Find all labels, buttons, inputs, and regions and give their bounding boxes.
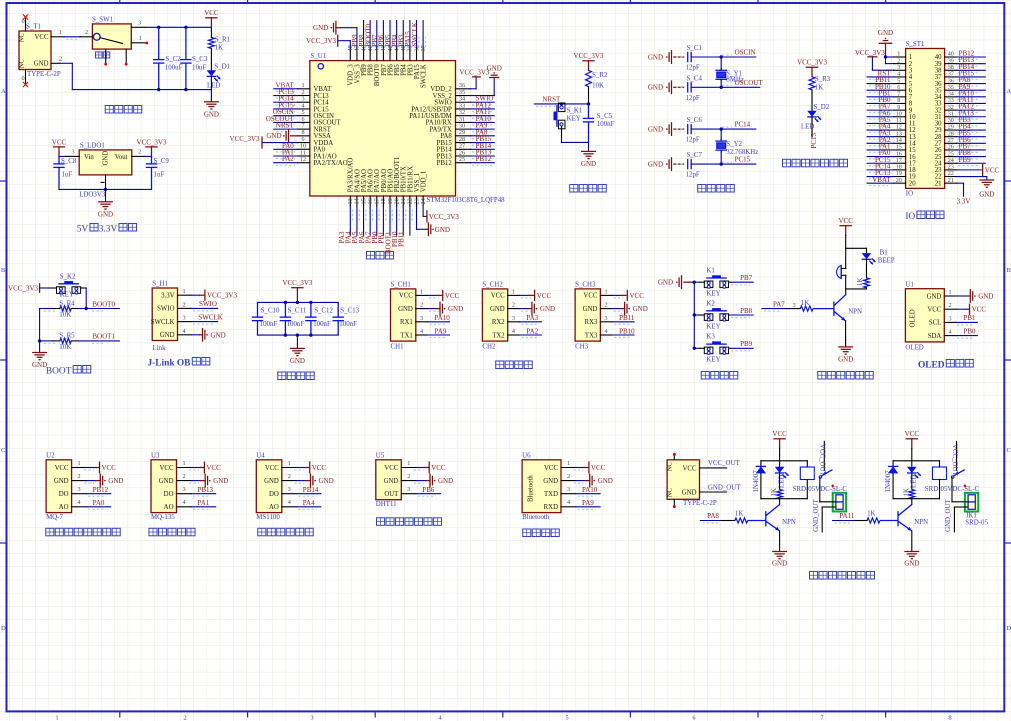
S_ST1 pin 34 — [945, 96, 957, 98]
svg-text:MQ-7: MQ-7 — [46, 514, 63, 521]
svg-text:DO: DO — [59, 491, 69, 498]
wire net BOOT0 — [79, 308, 120, 310]
svg-text:SWCLK: SWCLK — [411, 22, 419, 47]
wire net PB8 — [730, 314, 754, 316]
wire net PA3 — [349, 206, 351, 235]
svg-text:2: 2 — [420, 302, 423, 309]
wire net PB12 — [86, 493, 110, 495]
svg-text:S_C7: S_C7 — [687, 152, 703, 159]
S_ST1 pin 40 — [945, 56, 957, 58]
svg-text:VCC: VCC — [265, 465, 279, 472]
terminal wires JK1 — [952, 501, 968, 503]
svg-text:VCC_3V3: VCC_3V3 — [574, 52, 604, 60]
svg-text:Link: Link — [153, 345, 167, 352]
svg-text:GND: GND — [648, 84, 663, 92]
svg-text:GND: GND — [878, 29, 893, 37]
title U2 — [46, 528, 54, 536]
ground GND filter — [296, 335, 298, 348]
S_U1 pin 9 VDDA — [298, 142, 310, 144]
wire net PB13 right — [957, 63, 986, 65]
svg-text:PB11: PB11 — [398, 231, 406, 247]
svg-text:GND: GND — [103, 151, 110, 166]
svg-text:4: 4 — [948, 329, 951, 336]
svg-text:1K: 1K — [801, 300, 809, 307]
module S_CH2 body — [482, 289, 507, 341]
relay bottom rail None — [761, 498, 807, 500]
wire net PB13 — [191, 493, 215, 495]
wire net PC15 — [274, 108, 298, 110]
title 电源电路 — [105, 105, 113, 113]
svg-text:GND: GND — [581, 160, 596, 168]
svg-text:NC: NC — [19, 59, 26, 69]
S_U1 pin 12 PA2/TX/AO — [298, 162, 310, 164]
wire net PA0 left — [867, 156, 893, 158]
wire key bottom to C5 bottom — [561, 136, 563, 143]
ground GND U2 — [86, 480, 95, 482]
relay NC contact JK1 — [964, 485, 967, 488]
capacitor S_C3 — [185, 27, 187, 59]
svg-text:GND: GND — [487, 64, 502, 72]
wire net PB0 — [956, 335, 977, 337]
svg-text:GND: GND — [682, 489, 697, 496]
S_ST1 pin 4 — [894, 76, 906, 78]
U1 pin 3 SCL — [944, 321, 956, 323]
svg-text:NC: NC — [667, 488, 674, 498]
svg-text:2: 2 — [182, 301, 185, 308]
svg-text:S_R1: S_R1 — [215, 36, 231, 43]
svg-text:5: 5 — [565, 715, 568, 721]
svg-text:2: 2 — [182, 473, 185, 480]
resistor S_R2 — [586, 70, 592, 86]
svg-text:PA11: PA11 — [839, 512, 855, 520]
svg-text:VCC_3V3: VCC_3V3 — [207, 292, 237, 300]
S_U1 pin 1 VBAT — [298, 88, 310, 90]
svg-text:TX1: TX1 — [400, 332, 412, 339]
green terminal JK1 — [965, 493, 978, 512]
svg-text:S_SW1: S_SW1 — [92, 16, 114, 23]
svg-text:S_R3: S_R3 — [815, 76, 831, 83]
title 晶振电路 — [698, 184, 706, 192]
svg-text:GND: GND — [978, 293, 993, 301]
resistor 1K relay JK1 — [909, 490, 915, 499]
svg-text:GND: GND — [448, 305, 463, 313]
S_ST1 pin 15 — [894, 149, 906, 151]
svg-text:VCC: VCC — [160, 465, 174, 472]
S_U1 pin 4 PC15 — [298, 108, 310, 110]
svg-text:2: 2 — [605, 302, 608, 309]
svg-text:GND: GND — [658, 279, 673, 287]
S_U1 pin 35 VSS_2 — [456, 95, 471, 97]
svg-text:VDD_1: VDD_1 — [421, 171, 428, 193]
S_U1 pin 18 PB0/AO — [382, 196, 384, 206]
svg-text:1: 1 — [948, 289, 951, 296]
wire net PB9 — [363, 21, 365, 48]
svg-text:PB11: PB11 — [619, 314, 635, 322]
relay top rail None — [761, 460, 807, 462]
wire net PB14 — [297, 493, 321, 495]
S_CH1 pin 4 TX1 — [416, 334, 428, 336]
svg-text:TXD: TXD — [544, 491, 558, 498]
power port VCC_3V3 at S_U1 VDD_2 — [471, 88, 477, 90]
S_SW1 pivot circle — [93, 33, 100, 40]
svg-text:4: 4 — [288, 499, 291, 506]
power port VCC_3V3 at S_U1 VDD_1 — [422, 206, 424, 217]
U2 pin 3 DO — [72, 493, 87, 495]
wire net PB7 right — [957, 149, 986, 151]
svg-text:VBAT: VBAT — [872, 176, 891, 184]
svg-text:K2: K2 — [706, 300, 715, 307]
svg-text:Vin: Vin — [84, 154, 94, 161]
svg-text:VCC_3V3: VCC_3V3 — [137, 138, 167, 146]
S_U1 pin 15 PA5/AO — [363, 196, 365, 206]
S_ST1 pin 17 — [894, 162, 906, 164]
wire net PB8 right — [957, 156, 986, 158]
module U1 body — [905, 289, 944, 342]
svg-text:4: 4 — [605, 328, 608, 335]
wire T1.VCC to SW1 — [64, 36, 80, 38]
svg-text:1: 1 — [512, 288, 515, 295]
S_U1 pin 24 VDD_1 — [422, 196, 424, 206]
S_U1 pin 11 PA1/AO — [298, 155, 310, 157]
svg-text:4: 4 — [182, 499, 185, 506]
svg-text:Vout: Vout — [115, 154, 128, 161]
svg-text:1: 1 — [182, 460, 185, 467]
module S_CH1 body — [391, 289, 416, 341]
svg-text:LDO3V3: LDO3V3 — [79, 191, 106, 198]
svg-text:8MHz: 8MHz — [726, 77, 744, 84]
svg-text:3: 3 — [78, 486, 81, 493]
title U6 — [523, 529, 531, 537]
relay switch contact None — [814, 472, 819, 474]
svg-text:PA2: PA2 — [282, 155, 294, 163]
terminal wires None — [820, 501, 836, 503]
svg-text:GND: GND — [633, 305, 648, 313]
svg-text:RX2: RX2 — [492, 319, 505, 326]
svg-text:VCC: VCC — [985, 166, 1000, 174]
svg-text:100nF: 100nF — [260, 321, 278, 328]
svg-text:S_R2: S_R2 — [592, 72, 608, 79]
svg-text:S_C11: S_C11 — [288, 307, 307, 314]
wire net PA10 — [471, 121, 495, 123]
wire NRST — [534, 103, 588, 105]
T2 bottom stub — [673, 499, 675, 505]
ground GND oled — [956, 295, 968, 297]
U6 pin 3 TXD — [561, 493, 576, 495]
svg-text:1K: 1K — [735, 510, 743, 517]
wire net PB10 left — [867, 89, 893, 91]
power port VCC relay JK1 — [911, 439, 913, 449]
S_ST1 pin 21 — [945, 182, 957, 184]
svg-text:VCC: VCC — [206, 464, 221, 472]
wire net PA0 — [86, 506, 110, 508]
S_CH1 pin 3 RX1 — [416, 321, 428, 323]
S_ST1 pin 3 — [894, 69, 906, 71]
svg-text:VCC: VCC — [491, 293, 505, 300]
svg-text:U6: U6 — [522, 452, 531, 459]
svg-text:K3: K3 — [706, 334, 715, 341]
svg-text:KEY: KEY — [706, 323, 720, 330]
wire net SWCLK — [422, 21, 424, 48]
svg-text:VCC: VCC — [772, 430, 787, 438]
wire net PA8 right — [957, 83, 986, 85]
wire net PA6 left — [867, 116, 893, 118]
wire net PA1 — [274, 155, 298, 157]
svg-text:25: 25 — [459, 156, 465, 163]
svg-text:PA3: PA3 — [526, 314, 538, 322]
svg-text:2: 2 — [85, 29, 88, 36]
svg-text:S_K2: S_K2 — [60, 274, 76, 281]
U2 pin 1 VCC — [72, 467, 87, 469]
svg-text:IO: IO — [906, 191, 913, 198]
S_U1 pin 32 PA11/USB/DM — [456, 115, 471, 117]
power port VCC_3V3 at S_U1 VDDA — [262, 142, 298, 144]
wire net PA15 — [416, 21, 418, 48]
S_CH3 pin 4 TX3 — [600, 334, 612, 336]
power port VCC at LDO input — [58, 147, 60, 157]
U4 pin 4 AO — [282, 506, 297, 508]
svg-text:S_C1: S_C1 — [687, 45, 703, 52]
svg-text:PA1: PA1 — [198, 499, 210, 507]
S_U1 pin 47 VSS_3 — [356, 48, 358, 61]
wire net PA5 left — [867, 122, 893, 124]
key S_K1 vertical — [561, 104, 563, 106]
svg-text:3: 3 — [605, 315, 608, 322]
svg-text:VCC: VCC — [905, 430, 920, 438]
wire net PC13 — [274, 95, 298, 97]
svg-text:NC: NC — [19, 33, 26, 43]
S_U1 pin 30 PA9/TX — [456, 128, 471, 130]
svg-text:VCC_3V3: VCC_3V3 — [306, 37, 336, 45]
wire net PB15 — [471, 142, 495, 144]
S_T1 pin 1 VCC — [51, 36, 64, 38]
svg-text:VCC: VCC — [399, 293, 413, 300]
S_U1 pin 37 SWCLK — [422, 48, 424, 61]
svg-text:VCC_3V3: VCC_3V3 — [8, 285, 38, 293]
LED branch — [866, 248, 868, 252]
svg-text:VCC: VCC — [102, 464, 117, 472]
S_ST1 pin 2 — [894, 63, 906, 65]
ground GND jlink — [191, 334, 200, 336]
wire net PC13 left — [867, 176, 893, 178]
svg-text:GND: GND — [648, 53, 663, 61]
svg-text:100nF: 100nF — [339, 321, 357, 328]
transistor NPN relay JK1 — [897, 511, 899, 526]
svg-text:GND: GND — [290, 357, 305, 365]
svg-text:2: 2 — [288, 473, 291, 480]
U3 pin 3 DO — [177, 493, 192, 495]
S_U1 pin1 marker circle — [318, 64, 323, 69]
S_U1 pin 34 SWIO — [456, 101, 471, 103]
svg-text:24: 24 — [420, 198, 427, 204]
S_ST1 pin 24 — [945, 162, 957, 164]
svg-text:2: 2 — [567, 473, 570, 480]
svg-text:GND: GND — [648, 161, 663, 169]
svg-text:GND: GND — [264, 478, 279, 485]
svg-text:GND: GND — [648, 126, 663, 134]
switch S_SW1 body — [92, 24, 131, 49]
wire VCC_OUT drop JK1 — [956, 441, 958, 470]
S_ST1 pin 39 — [945, 63, 957, 65]
svg-text:3: 3 — [72, 148, 75, 155]
svg-text:S_CH3: S_CH3 — [575, 282, 596, 289]
wire net PB11 left — [867, 83, 893, 85]
U6 pin 4 RXD — [561, 506, 576, 508]
filter bottom rail — [258, 334, 339, 336]
S_U1 pin 16 PA6/AO — [369, 196, 371, 206]
svg-text:3.3V: 3.3V — [161, 293, 174, 300]
svg-text:SWCLK: SWCLK — [198, 313, 223, 321]
ground GND U4 — [297, 480, 306, 482]
power port VCC relay None — [779, 439, 781, 449]
wire net PA12 right — [957, 109, 986, 111]
wire net PB0 left — [867, 102, 893, 104]
wire net PA12 — [471, 108, 495, 110]
svg-text:STM32F103C8T6_LQFP48: STM32F103C8T6_LQFP48 — [427, 197, 506, 204]
S_U1 pin 8 VSSA — [298, 135, 310, 137]
svg-text:OLED: OLED — [918, 361, 945, 371]
svg-text:GND: GND — [838, 355, 853, 363]
svg-text:10K: 10K — [59, 312, 71, 319]
svg-text:PB8: PB8 — [740, 307, 753, 315]
U3 pin 1 VCC — [177, 467, 192, 469]
svg-text:3: 3 — [420, 315, 423, 322]
wire net PB14 — [471, 148, 495, 150]
power port VCC at header pin 23 — [957, 169, 982, 171]
crystal S_Y1 — [720, 55, 723, 58]
svg-text:D: D — [1, 625, 6, 632]
ground at S_U1 VSS_3 — [356, 28, 358, 48]
wire net PA8 — [471, 135, 495, 137]
svg-text:K1: K1 — [706, 268, 715, 275]
capacitor S_C5 — [588, 104, 590, 119]
svg-text:GND: GND — [32, 361, 47, 369]
svg-text:U2: U2 — [46, 452, 55, 459]
wire net PC14 — [274, 101, 298, 103]
svg-text:2: 2 — [512, 302, 515, 309]
svg-text:S_CH1: S_CH1 — [391, 282, 412, 289]
wire net PA3 left — [867, 136, 893, 138]
svg-text:GND: GND — [98, 210, 113, 218]
svg-text:21: 21 — [935, 180, 942, 187]
svg-text:PB9: PB9 — [740, 340, 753, 348]
svg-text:100nF: 100nF — [597, 121, 615, 128]
svg-text:2: 2 — [138, 148, 141, 155]
svg-text:KEY: KEY — [60, 291, 74, 298]
wire net PB9 — [730, 347, 754, 349]
wire net PB3 right — [957, 122, 986, 124]
svg-text:12pF: 12pF — [686, 137, 700, 144]
svg-text:VCC: VCC — [55, 465, 69, 472]
S_T1 top no-connect pin — [25, 18, 27, 31]
S_H1 pin 4 GND — [178, 334, 192, 336]
svg-text:3: 3 — [407, 486, 410, 493]
svg-text:BOOT: BOOT — [46, 367, 72, 377]
wire 1K to base — [813, 308, 834, 310]
title U4 — [258, 528, 266, 536]
svg-text:Bluetooth: Bluetooth — [522, 514, 550, 521]
S_SW1 lever — [100, 38, 122, 44]
S_U1 pin 10 PA0 — [298, 148, 310, 150]
wire net SWCLK — [191, 321, 218, 323]
S_CH2 pin 1 VCC — [508, 294, 520, 296]
svg-text:NPN: NPN — [782, 519, 796, 526]
wire net PB4 right — [957, 129, 986, 131]
svg-text:GND_OUT: GND_OUT — [945, 499, 952, 532]
svg-text:GND: GND — [313, 24, 328, 32]
wire to PC15 — [691, 163, 756, 165]
svg-text:CH2: CH2 — [482, 343, 496, 350]
ground GND S_CH2 — [519, 308, 528, 310]
svg-text:21: 21 — [948, 177, 954, 184]
base wire net PA7 — [762, 308, 787, 310]
S_ST1 pin 7 — [894, 96, 906, 98]
svg-text:GND: GND — [213, 477, 228, 485]
T2 top stub — [673, 456, 675, 460]
svg-text:2: 2 — [183, 715, 186, 721]
svg-text:S_LDO1: S_LDO1 — [80, 142, 105, 149]
svg-text:VCC_OUT: VCC_OUT — [708, 460, 741, 467]
wire net PB1 left — [867, 96, 893, 98]
wire net PB11 — [409, 206, 411, 235]
svg-text:MS1100: MS1100 — [256, 514, 280, 521]
module S_CH3 body — [575, 289, 600, 341]
svg-text:GND: GND — [398, 306, 413, 313]
resistor 1K relay None — [777, 490, 783, 499]
ground GND U5 — [416, 480, 425, 482]
relay switch contact JK1 — [947, 472, 952, 474]
wire net PA13 right — [957, 116, 986, 118]
wire net VCC_OUT — [700, 467, 727, 469]
svg-text:AO: AO — [269, 504, 279, 511]
svg-text:1K: 1K — [815, 84, 823, 91]
S_H1 pin 1 3.3V — [178, 294, 192, 296]
wire VCC_OUT drop None — [823, 441, 825, 470]
svg-text:SRD-05: SRD-05 — [965, 519, 988, 526]
resistor S_R4 — [40, 308, 53, 310]
title 声光报警电路 — [818, 371, 826, 379]
wire net PA7 left — [867, 109, 893, 111]
U3 pin 4 AO — [177, 506, 192, 508]
wire net OSCOUT — [274, 121, 298, 123]
svg-text:VCC: VCC — [445, 292, 460, 300]
S_ST1 pin 25 — [945, 156, 957, 158]
wire key to BOOT0 node — [85, 288, 87, 309]
S_SW1 pin 2 — [80, 36, 92, 38]
svg-text:TYPE-C-2P: TYPE-C-2P — [683, 500, 717, 507]
svg-text:GND: GND — [772, 560, 787, 568]
wire net PA11 — [471, 115, 495, 117]
wire net PB5 — [396, 21, 398, 48]
wire net PA9 right — [957, 89, 986, 91]
svg-text:S_R4: S_R4 — [59, 300, 75, 307]
filter top rail — [258, 301, 339, 303]
svg-text:3: 3 — [182, 315, 185, 322]
relay coil None — [800, 467, 814, 480]
S_U1 pin 26 PB13 — [456, 155, 471, 157]
U5 pin 3 OUT — [401, 493, 416, 495]
svg-text:1: 1 — [567, 460, 570, 467]
S_CH3 pin 1 VCC — [600, 294, 612, 296]
capacitor S_C6 — [676, 128, 683, 130]
wire net PB6 — [389, 21, 391, 48]
svg-text:3: 3 — [288, 486, 291, 493]
power port VCC alarm — [845, 226, 847, 236]
svg-text:1: 1 — [139, 35, 142, 42]
ground at S_U1 VSS_2 — [471, 95, 495, 97]
svg-text:SWCLK: SWCLK — [421, 64, 428, 88]
U5 pin 1 VCC — [401, 467, 416, 469]
wire SW1.3 to VCC rail — [146, 26, 212, 28]
